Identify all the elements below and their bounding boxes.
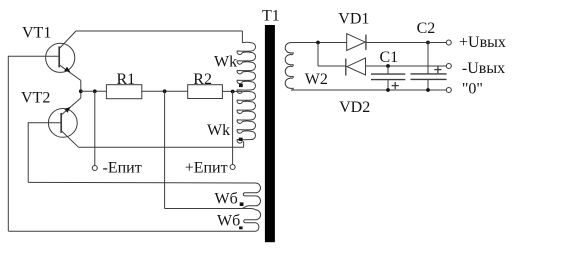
node C2 top bbox=[426, 41, 430, 45]
winding Wk upper bbox=[237, 42, 255, 93]
wire VT2 base left vertical bbox=[27, 122, 29, 182]
transistor VT2 bbox=[48, 98, 80, 147]
winding W2 bbox=[285, 42, 293, 90]
wire tap down bbox=[317, 43, 319, 67]
wire R2 to Wk tap bbox=[222, 90, 242, 92]
svg-text:W2: W2 bbox=[305, 71, 328, 88]
capacitor C1 bbox=[371, 66, 405, 90]
svg-text:VD1: VD1 bbox=[338, 10, 369, 27]
svg-text:R1: R1 bbox=[117, 71, 136, 88]
node -Epit tap bbox=[93, 89, 97, 93]
terminal -Uout bbox=[446, 64, 451, 69]
terminal -Epit bbox=[92, 166, 97, 171]
wire VT1 base left vertical bbox=[7, 56, 9, 231]
terminal +Uout bbox=[446, 40, 451, 45]
svg-text:Wб: Wб bbox=[217, 213, 240, 230]
wire VT2 collector bottom bbox=[79, 146, 244, 148]
polarity dot Wb lower bbox=[239, 226, 243, 229]
wire tap to VD2 bbox=[318, 65, 346, 67]
polarity dot Wk upper bbox=[239, 84, 243, 87]
svg-text:-Uвых: -Uвых bbox=[462, 60, 505, 77]
wire VT1 collector top bbox=[76, 30, 242, 32]
node C1 top bbox=[386, 64, 390, 68]
svg-text:+Епит: +Епит bbox=[185, 159, 228, 176]
wire top to Wk bbox=[241, 31, 243, 43]
transformer core T1 bbox=[265, 25, 275, 242]
svg-text:Wk: Wk bbox=[214, 54, 237, 71]
wire VT2 base bbox=[28, 122, 61, 124]
svg-text:VT2: VT2 bbox=[21, 90, 50, 107]
terminal 0 bbox=[446, 88, 451, 93]
wire R1-R2 bbox=[142, 90, 188, 92]
winding Wk lower bbox=[237, 91, 255, 143]
svg-text:C1: C1 bbox=[380, 49, 399, 66]
node R1-R2 junction bbox=[163, 89, 167, 93]
node C1 bottom bbox=[386, 88, 390, 92]
plus sign C2 bbox=[434, 69, 441, 71]
diode VD1 bbox=[347, 34, 366, 51]
svg-text:C2: C2 bbox=[417, 20, 436, 37]
winding Wb lower bbox=[8, 209, 260, 232]
wire to +Uout terminal bbox=[428, 42, 446, 44]
wire emitter bus bbox=[81, 90, 107, 92]
wire VT1 base bbox=[8, 55, 59, 57]
node emitters junction bbox=[79, 89, 83, 93]
node C2 bottom bbox=[426, 88, 430, 92]
svg-text:R2: R2 bbox=[193, 71, 212, 88]
transistor VT1 bbox=[46, 31, 81, 80]
svg-text:+Uвых: +Uвых bbox=[459, 34, 506, 51]
svg-text:"0": "0" bbox=[462, 81, 483, 98]
wire 0 rail bbox=[291, 89, 446, 91]
diode VD2 bbox=[346, 58, 366, 76]
terminal +Epit bbox=[230, 165, 235, 170]
svg-text:Wk: Wk bbox=[207, 122, 230, 139]
wire bias vertical bbox=[164, 91, 166, 208]
capacitor C2 bbox=[411, 43, 447, 91]
wire +Epit vertical bbox=[232, 92, 234, 165]
node +Epit tap bbox=[231, 90, 235, 94]
plus sign C1 bbox=[392, 85, 399, 87]
svg-text:-Епит: -Епит bbox=[103, 160, 142, 177]
node W2 top tap bbox=[316, 41, 320, 45]
wire emitters vertical bbox=[80, 80, 82, 98]
wire VD1 to node bbox=[366, 42, 428, 44]
svg-text:Wб: Wб bbox=[215, 191, 238, 208]
wire W2 top to VD1 bbox=[291, 42, 347, 44]
wire VD2 to -Uout bbox=[366, 65, 447, 67]
svg-text:VD2: VD2 bbox=[339, 99, 370, 116]
polarity dot Wb upper bbox=[240, 202, 244, 206]
winding Wb upper bbox=[28, 182, 260, 208]
wire Wk bottom to collector wire bbox=[243, 141, 245, 147]
resistor R2 bbox=[188, 85, 223, 99]
wire -Epit vertical bbox=[94, 91, 96, 165]
svg-text:T1: T1 bbox=[262, 8, 280, 25]
polarity dot Wk lower bbox=[239, 138, 243, 141]
resistor R1 bbox=[106, 85, 141, 99]
svg-text:VT1: VT1 bbox=[22, 25, 51, 42]
